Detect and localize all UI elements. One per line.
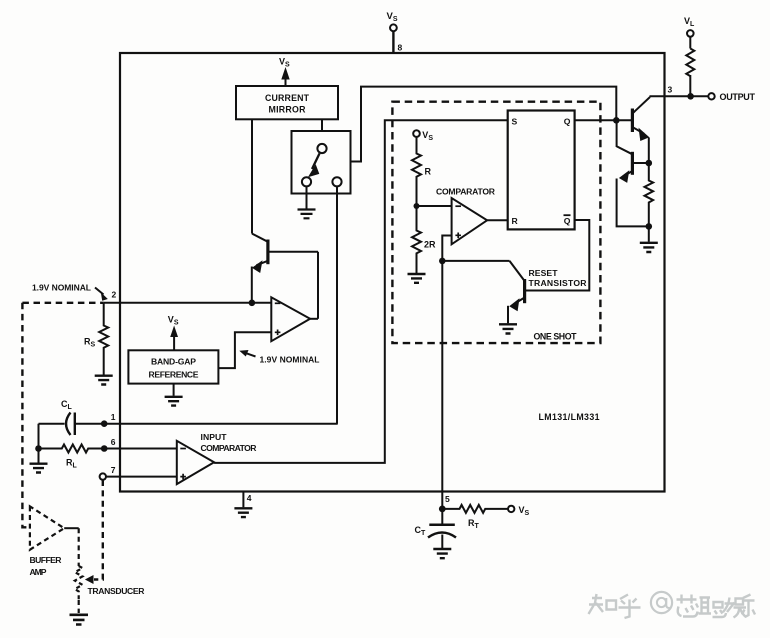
- VS arrow above current mirror: [281, 67, 289, 80]
- wire Q1 emitter down: [648, 138, 650, 164]
- wire pin 7 to comparator: [106, 476, 177, 478]
- transistor output Q2 (mirrored): [631, 152, 634, 175]
- svg-text:CT: CT: [415, 525, 427, 537]
- op-amp reference amp: [271, 297, 310, 341]
- wire comparator + input down to pin5 line: [442, 236, 451, 261]
- OUTPUT terminal: [708, 93, 714, 99]
- wire CT to ground: [441, 535, 443, 549]
- VL terminal: [687, 30, 694, 37]
- svg-text:ONE SHOT: ONE SHOT: [534, 332, 578, 342]
- ground pin 4: [234, 508, 252, 517]
- wire buffer output: [64, 527, 79, 529]
- resistor R: [412, 137, 421, 206]
- svg-text:2R: 2R: [424, 240, 436, 250]
- wire opamp output up to Q ref base: [317, 252, 319, 319]
- current mirror block: [236, 86, 338, 119]
- watermark zhihu logo text: [589, 592, 756, 618]
- capacitor CT: [441, 509, 443, 525]
- wire pin8 to box: [392, 31, 394, 53]
- VS arrow above band-gap: [170, 326, 178, 338]
- arrow to pin2 wire: [95, 288, 104, 295]
- emitter resistor: [645, 163, 654, 226]
- wire Q2 emitter to common node: [617, 179, 649, 227]
- svg-text:CURRENT: CURRENT: [265, 93, 310, 103]
- svg-text:3: 3: [668, 85, 673, 95]
- wire Q to output node: [575, 119, 617, 121]
- transducer dashed chain: [78, 528, 80, 566]
- svg-text:LM131/LM331: LM131/LM331: [539, 412, 600, 422]
- svg-text:1.9V NOMINAL: 1.9V NOMINAL: [32, 283, 91, 293]
- wire reset emitter to ground: [507, 306, 509, 324]
- svg-text:RESET: RESET: [529, 268, 559, 278]
- wire pin3 to OUTPUT: [650, 95, 709, 97]
- node R/2R divider: [414, 203, 420, 209]
- pin 8 VS terminal: [390, 24, 397, 31]
- svg-text:2: 2: [112, 290, 117, 300]
- svg-text:REFERENCE: REFERENCE: [149, 370, 199, 380]
- IC boundary box LM131: [120, 53, 665, 492]
- arrow to band-gap wire: [245, 353, 256, 357]
- ground transducer: [70, 615, 89, 625]
- svg-text:1: 1: [111, 412, 116, 422]
- svg-text:OUTPUT: OUTPUT: [720, 92, 756, 102]
- node RL right pin6: [101, 445, 108, 452]
- wire switch left contact to ground: [306, 186, 308, 208]
- transistor reset: [523, 279, 526, 303]
- svg-text:R: R: [425, 167, 432, 177]
- svg-text:COMPARATOR: COMPARATOR: [436, 186, 496, 196]
- wire left leg to ground: [38, 424, 40, 463]
- wire band-gap output to opamp +: [218, 332, 271, 368]
- svg-text:R: R: [512, 216, 519, 226]
- svg-text:VS: VS: [279, 57, 290, 69]
- wire comparator output to one-shot S: [214, 120, 508, 463]
- node resistor bottom: [646, 223, 653, 230]
- flip-flop block: [508, 111, 575, 230]
- svg-text:RT: RT: [468, 518, 480, 530]
- svg-text:TRANSISTOR: TRANSISTOR: [529, 278, 588, 288]
- node at pin 3: [687, 93, 694, 100]
- wire pin 2 (solid): [104, 302, 272, 304]
- wire switch to FF node (top rail inside box): [351, 87, 617, 162]
- wire divider to comparator: [417, 205, 452, 207]
- wire Q ref emitter to pin2 node: [251, 267, 253, 303]
- svg-text:AMP: AMP: [30, 567, 47, 577]
- resistor RT: [442, 505, 508, 513]
- wire opamp output: [310, 318, 318, 320]
- wire VL to resistor: [689, 37, 691, 49]
- band-gap reference block: [128, 350, 218, 383]
- VS terminal at RT: [508, 506, 514, 512]
- node pin 5: [439, 506, 446, 513]
- svg-text:VS: VS: [168, 315, 179, 327]
- svg-text:4: 4: [247, 493, 252, 503]
- resistor 2R: [412, 206, 421, 273]
- ground output stage: [640, 243, 658, 252]
- VS terminal one-shot: [413, 130, 420, 137]
- ground left of RL: [30, 464, 48, 473]
- wire comparator out to FF R: [487, 219, 508, 221]
- wire switch right contact down to pin1 rail: [336, 186, 338, 423]
- ground reset transistor: [499, 324, 517, 333]
- node threshold junction: [439, 258, 446, 265]
- resistor RL row / pin 6 wire: [39, 445, 177, 453]
- node RL left: [35, 445, 42, 452]
- ground under band-gap: [173, 384, 175, 396]
- ground under 2R: [408, 274, 426, 283]
- dashed line pin7 to transducer: [94, 480, 103, 580]
- svg-text:6: 6: [111, 437, 116, 447]
- wire pin 1 rail: [104, 423, 338, 425]
- wire node to reset transistor: [442, 260, 509, 262]
- transistor Q ref (emitter follower): [266, 240, 269, 265]
- svg-text:VS: VS: [422, 130, 433, 142]
- node FF Q / output driver base: [613, 117, 620, 124]
- wire transducer to ground dashed: [78, 600, 80, 613]
- wire pin 4: [242, 492, 244, 508]
- buffer amp (dashed): [30, 506, 64, 549]
- switch common contact: [317, 144, 326, 153]
- svg-text:1.9V NOMINAL: 1.9V NOMINAL: [260, 355, 320, 365]
- dashed feedback line left side: [22, 303, 27, 528]
- switch arm with arrowhead: [312, 154, 320, 170]
- one shot dashed boundary: [392, 102, 600, 343]
- wire resistor to node 3: [689, 75, 691, 96]
- svg-text:BUFFER: BUFFER: [30, 555, 63, 565]
- svg-text:Q: Q: [564, 117, 571, 127]
- arrowhead at transducer: [85, 575, 94, 584]
- wire node to ground: [648, 226, 650, 241]
- svg-text:VS: VS: [387, 11, 398, 23]
- svg-text:8: 8: [398, 43, 403, 53]
- svg-text:TRANSDUCER: TRANSDUCER: [88, 586, 146, 596]
- svg-text:RS: RS: [84, 337, 96, 349]
- current switch box: [292, 131, 351, 194]
- ground under RS: [95, 376, 113, 385]
- svg-text:VL: VL: [684, 16, 695, 28]
- switch right contact: [332, 177, 341, 186]
- wire current mirror left leg down: [251, 119, 253, 233]
- svg-text:COMPARATOR: COMPARATOR: [201, 443, 258, 453]
- wire Qbar to reset transistor base: [525, 220, 590, 291]
- switch left contact: [302, 177, 311, 186]
- svg-text:VS: VS: [519, 505, 530, 517]
- node CL right pin1: [101, 420, 108, 427]
- svg-text:INPUT: INPUT: [201, 432, 228, 442]
- wire current mirror right leg to switch: [321, 119, 323, 131]
- transistor output Q1: [631, 109, 634, 133]
- svg-text:5: 5: [445, 494, 450, 504]
- node Q1 emitter / Q2 base: [646, 160, 653, 167]
- overline on Qbar: [564, 214, 571, 216]
- node pin2 junction: [249, 300, 256, 307]
- wire pin 2 dashed tail: [22, 302, 103, 304]
- svg-text:CL: CL: [61, 399, 73, 411]
- svg-text:MIRROR: MIRROR: [269, 104, 307, 114]
- op-amp one-shot comparator: [452, 198, 488, 244]
- ground under switch: [298, 210, 316, 219]
- pull-up resistor on VL: [686, 49, 694, 77]
- pin 7 terminal: [100, 473, 106, 479]
- svg-text:RL: RL: [66, 458, 78, 470]
- ground CT: [433, 549, 451, 558]
- transducer element: [75, 566, 83, 600]
- svg-text:Q: Q: [564, 216, 571, 226]
- op-amp input comparator: [177, 441, 214, 484]
- svg-text:BAND-GAP: BAND-GAP: [151, 357, 196, 367]
- resistor RS: [99, 303, 108, 375]
- svg-text:7: 7: [111, 465, 116, 475]
- wire node down to pin 5: [441, 261, 443, 509]
- svg-text:S: S: [512, 117, 518, 127]
